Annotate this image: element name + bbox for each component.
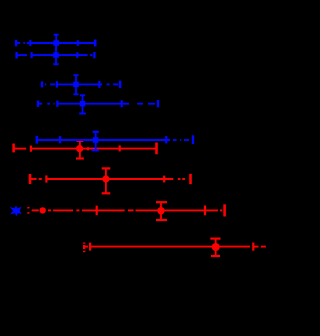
series 2 (blue, y=55.1) <box>17 46 95 64</box>
series 4 (blue, y=103.7) <box>38 95 158 113</box>
series 5 (blue, y=139.7) <box>37 132 193 151</box>
series 3 (blue, y=84.4) <box>42 75 120 94</box>
series 7 (red, y=179.6) <box>30 168 191 193</box>
blue star marker <box>12 207 20 215</box>
series 6 (red, y=148.4) <box>14 141 157 159</box>
series 8 (red, y=210.4) <box>28 202 224 220</box>
series 1 (blue, y=43) <box>16 35 95 50</box>
series 9 (red, y=246.6) <box>84 239 266 256</box>
